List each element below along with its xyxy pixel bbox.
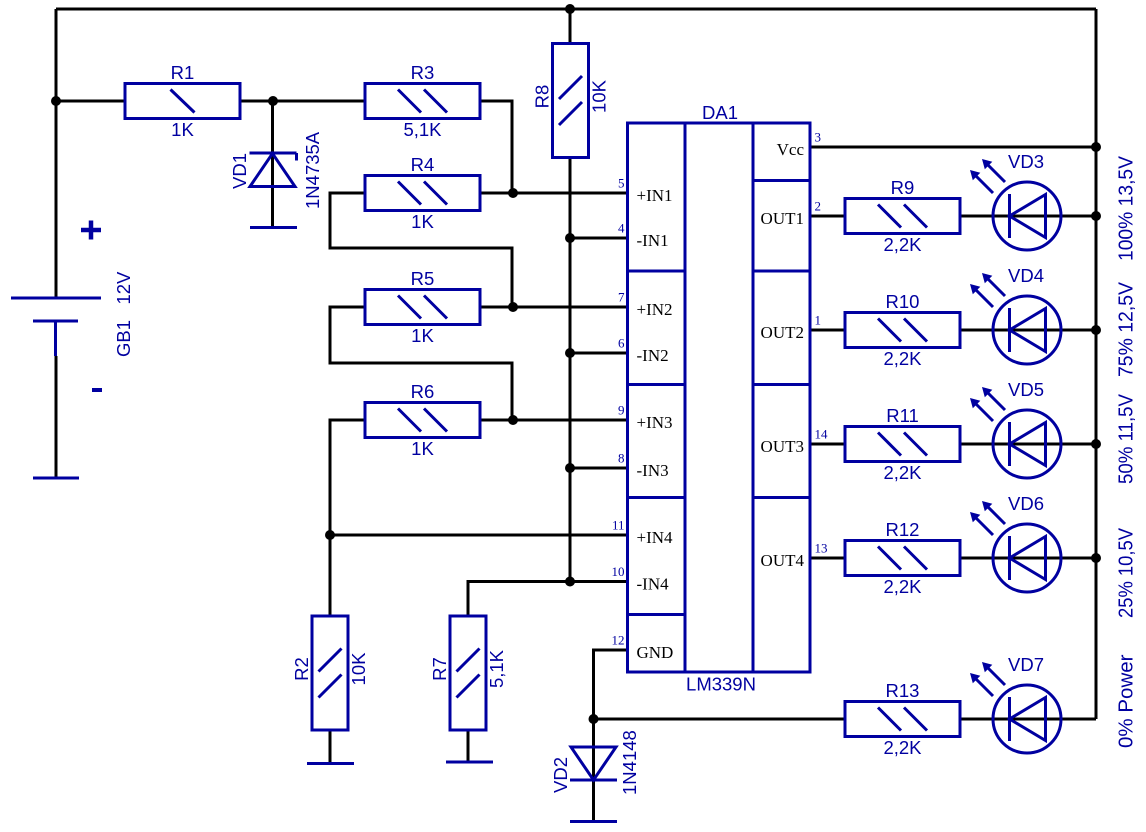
node GND/VD2/R13 junction — [589, 714, 599, 724]
node +IN4 junction — [325, 530, 335, 540]
wire GND pin 12 to VD2 — [594, 650, 629, 780]
svg-text:OUT3: OUT3 — [761, 437, 804, 456]
svg-text:OUT2: OUT2 — [761, 323, 804, 342]
node label 75% 12,5V — [1116, 281, 1138, 377]
wire VD2 node to R13 — [594, 718, 846, 721]
svg-text:VD5: VD5 — [1008, 379, 1044, 400]
op-amp comparator U1 DA1 LM339N body — [628, 102, 811, 695]
svg-text:0% Power: 0% Power — [1116, 654, 1138, 748]
svg-text:+IN4: +IN4 — [637, 528, 674, 547]
svg-text:-IN3: -IN3 — [637, 461, 669, 480]
wire +IN3 node to pin 9 — [480, 419, 628, 422]
LED VD7 — [970, 654, 1061, 753]
resistor R4 1K — [365, 154, 480, 232]
ground VD1 — [250, 226, 297, 229]
node bus Vcc junction — [1091, 142, 1101, 152]
svg-text:5,1K: 5,1K — [403, 119, 442, 140]
node label 50% 11,5V — [1116, 393, 1138, 484]
wire -IN3 pin 8 — [570, 467, 628, 470]
wire top supply rail — [56, 8, 1096, 11]
wire -IN1 pin 4 — [570, 237, 628, 240]
svg-text:1: 1 — [815, 313, 822, 328]
svg-text:LM339N: LM339N — [686, 674, 756, 695]
wire R4 left stair to +IN2 node — [330, 193, 512, 307]
node bus VD4 junction — [1091, 325, 1101, 335]
wire node A to R1 — [56, 100, 125, 103]
svg-text:25% 10,5V: 25% 10,5V — [1116, 527, 1138, 618]
svg-text:1N4735A: 1N4735A — [302, 131, 323, 209]
svg-text:6: 6 — [618, 336, 625, 351]
resistor R10 2,2K — [845, 291, 960, 369]
wire R1 to R3 (node B, VD1 tap) — [240, 100, 365, 103]
resistor R11 2,2K — [845, 405, 960, 483]
ground R2 — [307, 762, 354, 765]
svg-text:VD6: VD6 — [1008, 493, 1044, 514]
svg-text:2,2K: 2,2K — [883, 576, 922, 597]
svg-text:VD7: VD7 — [1008, 654, 1044, 675]
svg-text:R8: R8 — [532, 85, 553, 109]
wire VD6 to bus — [959, 557, 1096, 560]
svg-text:2,2K: 2,2K — [883, 737, 922, 758]
svg-text:R6: R6 — [411, 381, 435, 402]
node top rail R8 junction — [565, 4, 575, 14]
wire +IN1 node to pin 5 — [480, 192, 628, 195]
node +IN2 junction — [508, 302, 518, 312]
svg-text:3: 3 — [815, 130, 822, 145]
svg-text:R13: R13 — [886, 680, 920, 701]
wire R3 right down to +IN1 node — [480, 101, 512, 193]
resistor R2 10K — [291, 616, 369, 730]
svg-text:R2: R2 — [291, 657, 312, 681]
node label 100% 13,5V — [1116, 155, 1138, 261]
svg-text:10K: 10K — [348, 652, 369, 686]
svg-text:R11: R11 — [886, 405, 919, 426]
svg-text:-IN1: -IN1 — [637, 231, 669, 250]
resistor R7 5,1K — [429, 616, 507, 730]
svg-text:9: 9 — [618, 403, 625, 418]
node bus VD6 junction — [1091, 553, 1101, 563]
svg-text:R4: R4 — [411, 154, 435, 175]
wire VD4 to bus — [959, 329, 1096, 332]
DA1 pin function labels — [637, 140, 805, 662]
wire OUT3 pin 14 to R11 — [810, 443, 845, 446]
resistor R6 1K — [365, 381, 480, 459]
LED VD5 — [970, 379, 1061, 478]
svg-text:VD4: VD4 — [1008, 265, 1044, 286]
wire VD5 to bus — [959, 443, 1096, 446]
wire R7 bottom to ground — [467, 730, 470, 762]
node -IN3 sense junction — [565, 463, 575, 473]
wire sense node to R7 — [468, 582, 570, 617]
wire battery negative to ground — [55, 356, 58, 478]
svg-text:VD3: VD3 — [1008, 151, 1044, 172]
svg-text:+IN2: +IN2 — [637, 300, 673, 319]
svg-text:OUT1: OUT1 — [761, 209, 804, 228]
svg-text:R1: R1 — [171, 62, 195, 83]
svg-text:R3: R3 — [411, 62, 435, 83]
ground battery — [33, 477, 79, 480]
resistor R8 10K — [532, 44, 610, 158]
node -IN2 sense junction — [565, 348, 575, 358]
node label 0% Power — [1116, 654, 1138, 748]
LED VD4 — [970, 265, 1061, 364]
zener diode VD1 1N4735A — [229, 131, 323, 209]
wire R2 bottom to ground — [329, 730, 332, 764]
svg-text:2,2K: 2,2K — [883, 348, 922, 369]
svg-text:50% 11,5V: 50% 11,5V — [1116, 393, 1138, 484]
svg-text:8: 8 — [618, 451, 625, 466]
wire top rail to R8 — [569, 9, 572, 44]
svg-text:10: 10 — [612, 564, 625, 579]
svg-text:GB1 12V: GB1 12V — [113, 271, 134, 357]
wire right supply bus — [1095, 9, 1098, 719]
svg-text:VD2: VD2 — [550, 757, 571, 793]
resistor R12 2,2K — [845, 519, 960, 597]
svg-text:DA1: DA1 — [702, 102, 738, 123]
svg-text:R12: R12 — [886, 519, 920, 540]
svg-text:7: 7 — [618, 290, 625, 305]
svg-text:2: 2 — [815, 199, 822, 214]
node bus VD5 junction — [1091, 439, 1101, 449]
svg-text:GND: GND — [637, 643, 674, 662]
resistor R1 1K — [125, 62, 240, 140]
wire VD1 drop — [271, 101, 274, 228]
resistor R3 5,1K — [365, 62, 480, 140]
svg-text:14: 14 — [815, 427, 829, 442]
wire Vcc pin 3 to bus — [810, 146, 1096, 149]
diode VD2 1N4148 — [550, 730, 640, 795]
svg-text:OUT4: OUT4 — [761, 551, 805, 570]
svg-text:11: 11 — [612, 518, 625, 533]
wire OUT1 pin 2 to R9 — [810, 215, 845, 218]
wire R8 bottom sense line — [569, 159, 572, 582]
svg-text:13: 13 — [815, 541, 828, 556]
svg-text:-IN2: -IN2 — [637, 346, 669, 365]
svg-text:1K: 1K — [411, 438, 434, 459]
svg-text:VD1: VD1 — [229, 153, 250, 189]
wire +IN2 node to pin 7 — [480, 306, 628, 309]
svg-text:R10: R10 — [886, 291, 920, 312]
svg-text:1K: 1K — [411, 211, 434, 232]
svg-text:75% 12,5V: 75% 12,5V — [1116, 281, 1138, 377]
wire OUT4 pin 13 to R12 — [810, 557, 845, 560]
svg-text:+IN1: +IN1 — [637, 186, 673, 205]
svg-text:1K: 1K — [411, 325, 434, 346]
ground R7 — [446, 761, 493, 764]
svg-text:1N4148: 1N4148 — [619, 730, 640, 795]
svg-text:R5: R5 — [411, 268, 435, 289]
wire +IN4 node to pin 11 — [330, 534, 628, 537]
ground VD2 — [570, 820, 617, 823]
node VD1 zener tap junction — [268, 96, 278, 106]
resistor R13 2,2K — [845, 680, 960, 758]
node -IN4 sense junction — [565, 577, 575, 587]
svg-text:12: 12 — [612, 633, 625, 648]
wire R13 to VD7 to bus corner — [959, 718, 1096, 721]
node +IN1 junction — [508, 188, 518, 198]
svg-text:10K: 10K — [589, 79, 610, 113]
node label 25% 10,5V — [1116, 527, 1138, 618]
node bus VD3 junction — [1091, 211, 1101, 221]
wire VD2 anode to ground bar — [592, 780, 595, 822]
wire battery positive drop — [55, 9, 58, 298]
svg-text:5: 5 — [618, 176, 625, 191]
svg-text:2,2K: 2,2K — [883, 234, 922, 255]
svg-text:5,1K: 5,1K — [486, 649, 507, 688]
svg-text:4: 4 — [618, 221, 625, 236]
wire R5 left stair to +IN3 node — [330, 307, 512, 420]
LED VD6 — [970, 493, 1061, 592]
svg-text:+IN3: +IN3 — [637, 413, 673, 432]
node battery tap junction — [51, 96, 61, 106]
battery GB1 12V — [11, 221, 134, 479]
svg-text:2,2K: 2,2K — [883, 462, 922, 483]
node -IN1 sense junction — [565, 233, 575, 243]
resistor R5 1K — [365, 268, 480, 346]
DA1 pin numbers — [612, 130, 829, 648]
wire -IN4 pin 10 — [570, 580, 628, 583]
wire -IN2 pin 6 — [570, 352, 628, 355]
resistor R9 2,2K — [845, 177, 960, 255]
LED VD3 — [970, 151, 1061, 250]
wire VD3 to bus — [959, 215, 1096, 218]
svg-text:R9: R9 — [891, 177, 915, 198]
svg-text:1K: 1K — [171, 119, 194, 140]
svg-text:R7: R7 — [429, 657, 450, 681]
wire R6 left down to R2 top — [330, 420, 365, 616]
node +IN3 junction — [508, 415, 518, 425]
svg-text:Vcc: Vcc — [777, 140, 805, 159]
svg-text:100% 13,5V: 100% 13,5V — [1116, 155, 1138, 261]
svg-text:-IN4: -IN4 — [637, 575, 670, 594]
wire OUT2 pin 1 to R10 — [810, 329, 845, 332]
